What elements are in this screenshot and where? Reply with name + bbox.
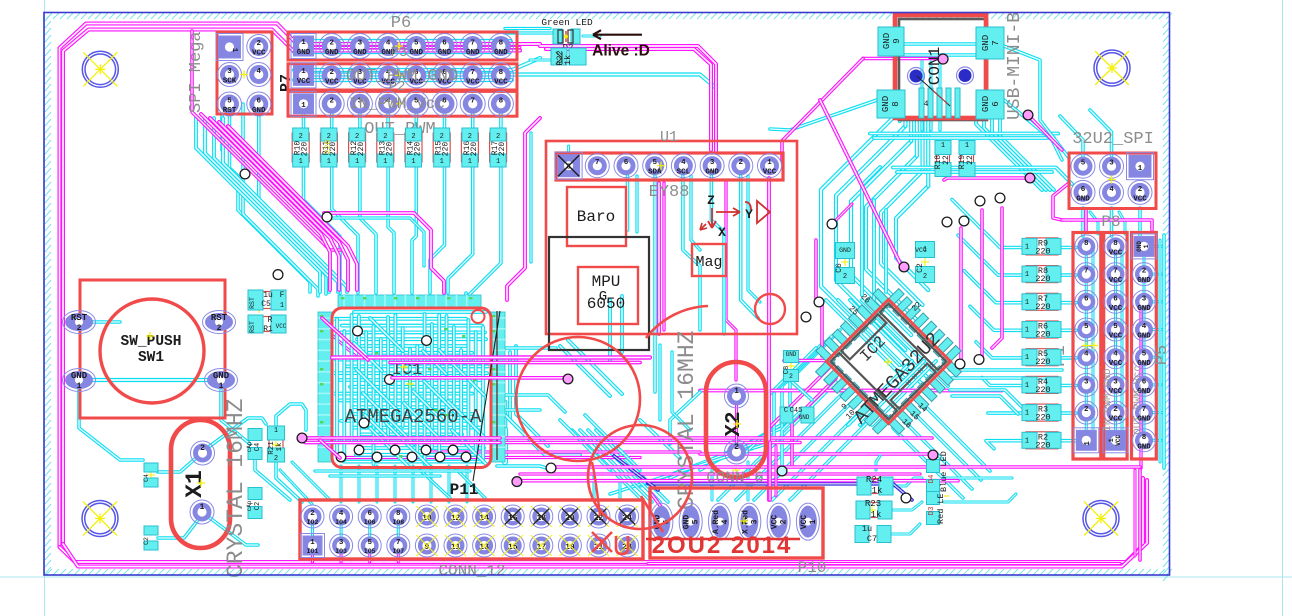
svg-text:GND: GND [799, 414, 810, 421]
svg-text:C5: C5 [261, 300, 271, 309]
svg-text:4: 4 [924, 100, 929, 109]
svg-text:4: 4 [339, 510, 344, 518]
svg-text:C6: C6 [835, 263, 844, 273]
svg-text:2: 2 [383, 133, 387, 141]
svg-text:P6: P6 [391, 14, 411, 33]
svg-text:1u: 1u [263, 291, 273, 300]
svg-text:24: 24 [622, 514, 632, 523]
svg-text:GND: GND [1137, 277, 1151, 285]
svg-text:CONN_6: CONN_6 [706, 469, 764, 487]
svg-text:SDA: SDA [648, 169, 662, 177]
svg-text:1: 1 [310, 539, 315, 547]
svg-text:1: 1 [280, 302, 284, 310]
svg-text:D3: D3 [928, 506, 936, 516]
svg-text:1: 1 [327, 158, 331, 166]
svg-text:RST: RST [249, 297, 256, 309]
svg-text:1: 1 [734, 387, 739, 396]
svg-text:1: 1 [383, 158, 387, 166]
svg-text:R1: R1 [263, 325, 273, 334]
svg-text:SCK: SCK [223, 78, 237, 86]
svg-text:GND: GND [1137, 443, 1151, 451]
svg-text:CRYSTAL 16MHZ: CRYSTAL 16MHZ [223, 399, 249, 578]
svg-text:220: 220 [1035, 440, 1050, 450]
svg-text:1: 1 [301, 102, 306, 110]
svg-text:220: 220 [1035, 357, 1050, 367]
svg-text:4: 4 [681, 159, 686, 167]
svg-text:IO2: IO2 [307, 519, 319, 526]
svg-text:5: 5 [227, 98, 232, 106]
svg-text:1: 1 [200, 503, 205, 512]
svg-text:220: 220 [301, 142, 310, 157]
svg-text:VCC: VCC [276, 323, 287, 330]
svg-text:2: 2 [843, 273, 847, 281]
svg-text:4: 4 [257, 68, 262, 76]
svg-text:EY88: EY88 [649, 183, 690, 202]
svg-text:1: 1 [411, 158, 415, 166]
svg-text:2: 2 [77, 324, 82, 333]
svg-text:3: 3 [1109, 160, 1114, 168]
svg-text:1: 1 [274, 427, 278, 435]
svg-text:C7: C7 [867, 534, 877, 544]
svg-text:GND: GND [882, 33, 892, 49]
svg-text:VCC: VCC [297, 78, 311, 86]
svg-text:IO5: IO5 [364, 548, 376, 555]
svg-text:220: 220 [1035, 385, 1050, 395]
svg-text:1: 1 [1108, 438, 1115, 442]
svg-text:VCC: VCC [763, 169, 777, 177]
svg-text:2: 2 [739, 159, 744, 167]
svg-text:P3: P3 [391, 45, 408, 61]
svg-text:IO6: IO6 [364, 519, 376, 526]
svg-text:7: 7 [595, 159, 600, 167]
svg-text:2: 2 [734, 443, 739, 452]
svg-text:IO1: IO1 [307, 548, 319, 555]
svg-text:220: 220 [1035, 413, 1050, 423]
svg-text:Z: Z [707, 193, 715, 208]
svg-text:6: 6 [367, 510, 372, 518]
svg-text:13: 13 [479, 543, 489, 552]
svg-text:8: 8 [499, 40, 504, 48]
svg-text:VCC: VCC [1109, 360, 1123, 368]
svg-text:SCL: SCL [677, 169, 691, 177]
svg-text:2: 2 [1142, 268, 1147, 276]
svg-text:VCC: VCC [494, 78, 508, 86]
svg-text:1u: 1u [862, 524, 872, 534]
svg-text:220: 220 [442, 142, 451, 157]
svg-text:3: 3 [339, 539, 344, 547]
svg-text:1: 1 [301, 39, 306, 47]
svg-text:2: 2 [789, 373, 793, 380]
svg-text:1: 1 [1138, 165, 1143, 173]
svg-text:1: 1 [1025, 243, 1029, 251]
svg-text:Mag: Mag [695, 254, 722, 271]
svg-text:8: 8 [891, 101, 901, 106]
svg-text:1: 1 [496, 158, 500, 166]
svg-text:1: 1 [941, 142, 945, 150]
svg-text:IN_PWM_Vcc: IN_PWM_Vcc [349, 95, 445, 113]
svg-text:3: 3 [710, 159, 715, 167]
svg-text:GND: GND [705, 169, 719, 177]
svg-text:VCC: VCC [1133, 195, 1147, 203]
svg-text:C2: C2 [143, 537, 150, 545]
svg-text:2: 2 [310, 510, 315, 518]
svg-text:P11: P11 [450, 481, 479, 499]
svg-text:220: 220 [357, 142, 366, 157]
svg-text:R24: R24 [866, 475, 882, 485]
svg-text:GND: GND [71, 371, 88, 381]
svg-text:2: 2 [329, 69, 334, 77]
svg-text:11: 11 [451, 543, 461, 552]
svg-text:1: 1 [1025, 327, 1029, 335]
svg-text:VCC: VCC [915, 247, 927, 254]
svg-text:GND: GND [438, 49, 452, 57]
svg-text:G: G [599, 289, 607, 305]
svg-text:2: 2 [217, 324, 222, 333]
svg-text:4: 4 [1113, 351, 1118, 359]
svg-text:4: 4 [721, 519, 730, 524]
svg-text:9: 9 [892, 38, 902, 43]
svg-text:R23: R23 [865, 499, 881, 509]
svg-text:1: 1 [355, 158, 359, 166]
svg-text:220: 220 [470, 142, 479, 157]
svg-text:3: 3 [358, 40, 363, 48]
svg-text:1: 1 [301, 68, 306, 76]
svg-text:5: 5 [367, 539, 372, 547]
svg-text:6: 6 [1113, 295, 1118, 303]
svg-text:4: 4 [1142, 323, 1147, 331]
svg-text:GND: GND [1137, 305, 1151, 313]
svg-text:GND: GND [981, 96, 991, 112]
svg-text:1k: 1k [871, 510, 882, 520]
svg-text:USB-MINI-B: USB-MINI-B [1005, 12, 1025, 120]
svg-text:2: 2 [440, 133, 444, 141]
svg-text:VCC: VCC [325, 78, 339, 86]
svg-text:5: 5 [1142, 351, 1147, 359]
svg-text:R: R [268, 316, 273, 325]
svg-text:1: 1 [1025, 299, 1029, 307]
svg-text:17: 17 [536, 543, 546, 552]
svg-text:2: 2 [329, 97, 334, 105]
svg-text:GND: GND [494, 49, 508, 57]
svg-text:220: 220 [385, 142, 394, 157]
svg-text:GND: GND [325, 49, 339, 57]
svg-text:5: 5 [1113, 323, 1118, 331]
svg-text:GND: GND [1137, 333, 1151, 341]
svg-text:GND: GND [981, 35, 991, 51]
svg-text:VCC: VCC [1115, 435, 1122, 446]
svg-text:X.Red: X.Red [741, 510, 750, 534]
svg-text:IO4: IO4 [335, 519, 347, 526]
svg-text:C2: C2 [254, 502, 262, 510]
svg-text:VCC: VCC [1109, 249, 1123, 257]
svg-text:RST: RST [71, 313, 88, 323]
svg-text:8: 8 [499, 97, 504, 105]
svg-text:7: 7 [1113, 268, 1118, 276]
svg-text:GND: GND [1136, 241, 1143, 252]
svg-text:6: 6 [1081, 186, 1086, 194]
svg-text:GND: GND [1076, 195, 1090, 203]
svg-text:VCC: VCC [1109, 333, 1123, 341]
svg-text:4: 4 [1084, 351, 1089, 359]
svg-text:C4: C4 [254, 443, 262, 451]
svg-text:1: 1 [299, 158, 303, 166]
svg-text:6: 6 [442, 40, 447, 48]
svg-text:2: 2 [923, 273, 927, 281]
svg-text:C2: C2 [916, 263, 925, 273]
svg-text:P8: P8 [1101, 213, 1120, 231]
svg-text:SPI Mega: SPI Mega [187, 31, 206, 113]
svg-text:IO3: IO3 [335, 548, 347, 555]
svg-text:1k: 1k [872, 486, 883, 496]
svg-text:X: X [718, 225, 726, 240]
svg-text:6: 6 [257, 98, 262, 106]
svg-text:2: 2 [257, 40, 262, 48]
svg-text:7: 7 [396, 539, 401, 547]
svg-text:CRYSTAL 16MHZ: CRYSTAL 16MHZ [674, 331, 700, 510]
svg-text:3: 3 [227, 68, 232, 76]
svg-text:1: 1 [230, 48, 238, 53]
svg-text:1: 1 [809, 519, 818, 524]
svg-text:VCC: VCC [1109, 277, 1123, 285]
svg-text:GND: GND [410, 49, 424, 57]
svg-text:22: 22 [966, 155, 975, 165]
svg-text:8: 8 [499, 69, 504, 77]
svg-text:IN_PWM_GND: IN_PWM_GND [1102, 368, 1114, 431]
svg-text:Blue LED: Blue LED [939, 451, 949, 492]
svg-text:15: 15 [508, 543, 518, 552]
svg-text:20: 20 [565, 514, 575, 523]
svg-text:6: 6 [1084, 295, 1089, 303]
svg-text:GND: GND [839, 247, 851, 254]
svg-text:6: 6 [991, 101, 1001, 106]
svg-text:10: 10 [422, 514, 432, 523]
svg-text:GND: GND [466, 49, 480, 57]
svg-text:2: 2 [355, 133, 359, 141]
svg-text:VCC: VCC [771, 515, 780, 530]
svg-text:1: 1 [219, 382, 224, 391]
svg-text:3: 3 [1142, 295, 1147, 303]
svg-text:8: 8 [396, 510, 401, 518]
svg-text:12: 12 [451, 514, 461, 523]
svg-text:14: 14 [479, 514, 489, 523]
svg-text:1k: 1k [563, 55, 573, 65]
svg-text:2: 2 [468, 133, 472, 141]
svg-text:220: 220 [1035, 274, 1050, 284]
svg-text:16: 16 [508, 514, 518, 523]
svg-text:VCC: VCC [1109, 305, 1123, 313]
svg-text:Y: Y [745, 207, 753, 222]
svg-text:2: 2 [496, 133, 500, 141]
svg-text:1: 1 [468, 158, 472, 166]
svg-text:5: 5 [1081, 160, 1086, 168]
svg-text:CON1: CON1 [926, 47, 944, 85]
svg-text:1: 1 [1025, 271, 1029, 279]
svg-text:VCC: VCC [252, 50, 266, 58]
svg-text:1: 1 [1025, 410, 1029, 418]
svg-text:CONN_12: CONN_12 [438, 562, 505, 580]
svg-text:RST: RST [249, 321, 256, 333]
svg-text:VCC: VCC [466, 78, 480, 86]
svg-text:7: 7 [470, 40, 475, 48]
svg-text:220: 220 [414, 142, 423, 157]
svg-text:2: 2 [1084, 406, 1089, 414]
svg-text:C4: C4 [143, 474, 150, 482]
svg-text:6: 6 [624, 159, 629, 167]
svg-text:7: 7 [991, 40, 1001, 45]
svg-text:1k: 1k [276, 442, 284, 452]
svg-text:C: C [784, 407, 788, 415]
svg-text:7: 7 [470, 69, 475, 77]
svg-text:GND: GND [353, 49, 367, 57]
svg-text:P2: P2 [389, 79, 406, 95]
svg-text:8: 8 [566, 164, 571, 172]
svg-text:R21: R21 [268, 441, 276, 455]
svg-text:5: 5 [692, 519, 701, 524]
svg-text:3: 3 [750, 519, 759, 524]
svg-text:2: 2 [1138, 186, 1143, 194]
svg-text:8: 8 [1084, 240, 1089, 248]
svg-text:3: 3 [1084, 378, 1089, 386]
svg-text:GND: GND [297, 49, 311, 57]
svg-text:D4: D4 [928, 474, 936, 484]
svg-text:2OU2 2014: 2OU2 2014 [652, 532, 793, 559]
svg-text:5: 5 [414, 40, 419, 48]
svg-text:VCC: VCC [800, 515, 809, 530]
svg-text:1: 1 [1143, 244, 1150, 248]
svg-text:A.Red: A.Red [712, 510, 721, 534]
svg-text:220: 220 [1035, 246, 1050, 256]
svg-text:RST: RST [223, 107, 237, 115]
svg-text:18: 18 [536, 514, 546, 523]
svg-text:19: 19 [565, 543, 575, 552]
svg-text:2: 2 [411, 133, 415, 141]
svg-text:OUT_PWM_Vcc: OUT_PWM_Vcc [1132, 365, 1144, 434]
svg-text:2: 2 [299, 133, 303, 141]
svg-text:F: F [280, 291, 285, 300]
svg-text:SW1: SW1 [138, 350, 164, 366]
svg-text:5: 5 [1084, 323, 1089, 331]
svg-text:1: 1 [1025, 354, 1029, 362]
svg-text:1: 1 [77, 382, 82, 391]
svg-text:2: 2 [329, 40, 334, 48]
svg-text:2: 2 [780, 519, 789, 524]
svg-text:OUT_PWM: OUT_PWM [364, 120, 435, 139]
svg-text:7: 7 [1084, 268, 1089, 276]
svg-text:U1: U1 [660, 129, 678, 146]
svg-text:GND: GND [786, 351, 797, 358]
svg-text:220: 220 [323, 139, 333, 154]
svg-text:1: 1 [767, 159, 772, 167]
svg-text:IO8: IO8 [392, 519, 404, 526]
svg-text:220: 220 [498, 142, 507, 157]
svg-text:220: 220 [1035, 330, 1050, 340]
svg-text:IO7: IO7 [392, 548, 404, 555]
svg-text:GND: GND [213, 371, 230, 381]
svg-text:Green LED: Green LED [541, 17, 593, 28]
svg-text:Baro: Baro [577, 208, 615, 226]
svg-text:8: 8 [1113, 240, 1118, 248]
svg-text:Alive :D: Alive :D [592, 43, 650, 60]
svg-text:1: 1 [440, 158, 444, 166]
svg-text:7: 7 [470, 97, 475, 105]
svg-text:5: 5 [652, 159, 657, 167]
svg-text:1: 1 [1025, 437, 1029, 445]
svg-text:RST: RST [211, 313, 228, 323]
svg-text:2: 2 [200, 444, 205, 453]
svg-text:Red LE: Red LE [936, 493, 946, 524]
svg-text:1: 1 [1084, 441, 1092, 446]
svg-text:GND: GND [881, 96, 891, 112]
svg-text:1: 1 [965, 142, 969, 150]
svg-text:32U2_SPI: 32U2_SPI [1072, 130, 1154, 149]
svg-text:22: 22 [594, 514, 604, 523]
svg-text:220: 220 [1035, 302, 1050, 312]
svg-text:GND: GND [683, 515, 692, 530]
svg-text:X1: X1 [182, 470, 208, 498]
svg-text:4: 4 [1109, 186, 1114, 194]
svg-text:GND: GND [252, 107, 266, 115]
svg-text:2: 2 [274, 455, 278, 463]
svg-text:22: 22 [942, 155, 951, 165]
svg-text:1: 1 [1025, 382, 1029, 390]
